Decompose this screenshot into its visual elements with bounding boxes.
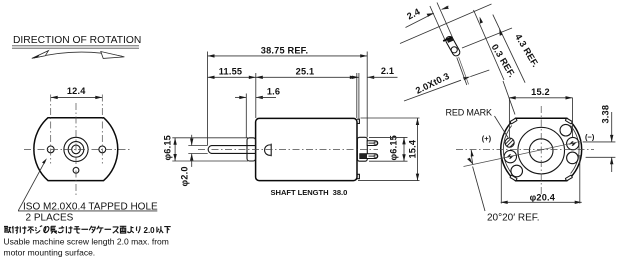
rotation arc — [34, 52, 122, 58]
svg-text:φ6.15: φ6.15 — [163, 135, 173, 160]
dimension 12.4 — [51, 86, 103, 99]
side view of motor — [198, 118, 378, 180]
terminal sheet edge lines — [457, 58, 467, 86]
English note text — [4, 237, 169, 258]
kana KE — [97, 226, 104, 233]
kanji SHITA — [164, 227, 171, 234]
front boss outer circle — [64, 137, 88, 161]
svg-text:φ2.0: φ2.0 — [180, 166, 190, 186]
ext end cap back — [358, 73, 360, 119]
kana ke — [20, 226, 26, 233]
rear view of motor — [456, 106, 594, 196]
svg-text:φ20.4: φ20.4 — [530, 192, 556, 202]
kanji TSUKE — [12, 226, 19, 233]
rear bearing housing circle — [518, 127, 565, 174]
label: DIRECTION OF ROTATION — [12, 35, 141, 58]
left hole centerline — [50, 95, 52, 164]
dimension 2.0Xt0.3 (rotated) — [404, 57, 489, 101]
cluster extension line E1 — [430, 6, 445, 40]
rear outline — [501, 118, 582, 180]
svg-text:RED MARK: RED MARK — [446, 108, 492, 118]
crimp tab bottom-left — [510, 175, 517, 181]
end cap bearing boss — [357, 137, 367, 161]
right open arrowhead — [101, 52, 125, 59]
terminal (-) tab — [569, 141, 577, 146]
kana long dash 2 — [105, 228, 112, 230]
extension lines, side view — [208, 52, 368, 146]
dimension 11.55 — [208, 67, 256, 80]
svg-text:2.1: 2.1 — [381, 66, 394, 76]
dimension dia 2.0 (shaft) — [180, 135, 208, 187]
terminal detail eyelet — [451, 47, 457, 53]
cluster top shallow extension line — [400, 4, 492, 44]
terminal detail (enlarged) — [443, 35, 461, 57]
svg-text:20°20′ REF.: 20°20′ REF. — [487, 212, 540, 223]
svg-text:12.4: 12.4 — [67, 86, 86, 96]
motor body — [256, 118, 357, 180]
ext case front — [255, 73, 257, 118]
svg-text:38.75 REF.: 38.75 REF. — [261, 46, 308, 56]
bottom terminal (side) — [360, 154, 378, 159]
dimension 15.4 — [358, 118, 420, 181]
svg-text:(−): (−) — [585, 133, 595, 142]
crimp tab top-left — [510, 118, 517, 124]
vent hole top-right — [560, 124, 572, 136]
side view centerline — [198, 149, 378, 151]
crimp tab top-right — [565, 118, 572, 124]
svg-text:2 PLACES: 2 PLACES — [26, 213, 74, 224]
front bottom vent hole — [73, 167, 79, 173]
dimension 2.4 (rotated) — [405, 6, 449, 28]
left open arrowhead — [32, 51, 49, 59]
rear vertical centerline — [540, 106, 542, 196]
end cap strip — [357, 119, 359, 179]
dimension dia 6.15 (left, sleeve bearing) — [163, 135, 249, 161]
dimension 25.1 — [256, 67, 357, 80]
kana no — [44, 227, 49, 233]
vent hole (D shape) — [265, 144, 272, 157]
terminal (+) tab — [506, 154, 514, 159]
dimension 4.3 REF. (steep) — [493, 15, 541, 83]
svg-text:DIRECTION OF ROTATION: DIRECTION OF ROTATION — [13, 35, 141, 46]
vent hole right-bottom — [567, 152, 579, 164]
terminal (+) circle — [504, 150, 516, 162]
crimp tab bottom-right — [565, 175, 572, 181]
rear inner circle — [529, 139, 553, 163]
svg-text:motor mounting surface.: motor mounting surface. — [4, 248, 96, 258]
dimension 38.75 REF. — [208, 46, 368, 58]
kana ri — [136, 226, 140, 233]
red mark leader — [495, 116, 509, 138]
ext bushing front — [245, 94, 247, 138]
dimension 2.1 — [352, 66, 398, 79]
svg-text:15.4: 15.4 — [408, 139, 418, 158]
dimension 3.38 — [583, 105, 616, 172]
front view outline — [34, 118, 118, 181]
terminal axis line — [464, 141, 582, 166]
svg-text:3.38: 3.38 — [600, 105, 610, 124]
terminal detail bent tip (solid) — [447, 37, 455, 43]
front horizontal centerline — [24, 148, 130, 150]
vent hole bottom-left — [511, 165, 523, 177]
ext boss back — [366, 52, 368, 138]
kana SU — [113, 227, 119, 233]
svg-text:φ6.15: φ6.15 — [388, 135, 398, 160]
dimension dia 20.4 — [501, 155, 582, 204]
kana NE — [28, 227, 34, 233]
kana long dash — [81, 228, 88, 230]
svg-text:25.1: 25.1 — [296, 67, 315, 77]
front shaft circle — [72, 145, 81, 154]
svg-text:11.55: 11.55 — [219, 67, 242, 77]
ext shaft tip — [207, 52, 209, 146]
underline 2 — [12, 47, 139, 49]
rear chamfer arc right — [571, 126, 579, 174]
front view of motor — [24, 95, 130, 197]
kana yo — [128, 226, 134, 233]
dimension 1.6 — [235, 86, 280, 99]
rear horizontal centerline — [456, 149, 594, 151]
angle dimension 20deg20 — [467, 150, 539, 224]
svg-text:(+): (+) — [482, 134, 492, 143]
cluster extension line E2 — [437, 3, 452, 38]
Japanese note (vector glyphs): torituke neji no nagasa wa motor case men yori 2.0 ika — [4, 226, 140, 234]
rear chamfer arc left — [503, 126, 511, 174]
ext case back — [356, 73, 358, 118]
kana JI — [35, 226, 42, 234]
leader: ISO tapped hole — [18, 158, 158, 223]
front vertical centerline — [75, 103, 77, 196]
kana MO — [74, 227, 81, 233]
kana TA — [89, 226, 95, 233]
dimension 15.2 — [509, 87, 573, 138]
cluster extension to case corner — [503, 81, 515, 115]
red mark (hatched) — [501, 135, 517, 154]
kanji TORI — [4, 227, 11, 233]
svg-text:2.0: 2.0 — [144, 226, 156, 235]
dimension dia 6.15 (right, end cap boss) — [369, 135, 408, 161]
svg-text:15.2: 15.2 — [531, 87, 550, 97]
terminal (-) circle — [567, 137, 579, 149]
kanji NAGA — [51, 226, 57, 233]
dimension 0.3 REF. (steep) — [474, 10, 518, 80]
bushing — [247, 138, 256, 161]
svg-text:SHAFT LENGTH 38.0: SHAFT LENGTH 38.0 — [271, 188, 348, 197]
kanji MEN — [120, 226, 127, 233]
top terminal (side) — [367, 141, 378, 146]
kanji I — [157, 226, 163, 233]
left tapped hole — [47, 146, 54, 153]
right hole centerline — [101, 95, 103, 164]
kana sa — [58, 226, 64, 233]
shaft — [208, 146, 255, 154]
svg-text:Usable machine screw length 2.: Usable machine screw length 2.0 max. fro… — [4, 237, 169, 247]
right tapped hole — [99, 146, 106, 153]
kana ha — [66, 226, 72, 233]
cluster middle shallow extension line — [462, 28, 512, 48]
svg-text:1.6: 1.6 — [267, 86, 280, 96]
front boss middle circle — [68, 142, 84, 158]
underline 1 — [12, 45, 139, 47]
